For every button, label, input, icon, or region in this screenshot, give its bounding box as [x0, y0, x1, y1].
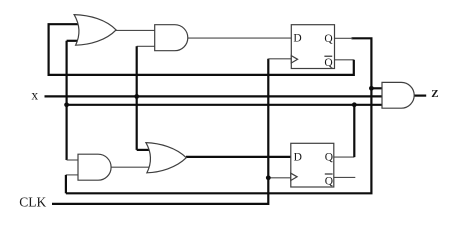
svg-text:Q: Q: [324, 33, 333, 45]
wire FF2 clock stub: [268, 177, 291, 179]
wire x input line: [45, 95, 383, 97]
or-gate OR1: [74, 15, 116, 46]
junction dot x line to AND1 branch: [134, 94, 139, 99]
wire Q2 vertical branch x=66.6 (OR1 lower to AND2 upper): [65, 41, 67, 160]
wire FF2 Q vertical up to Q2 net: [353, 105, 355, 157]
and-gate AND3 (3-input output z): [382, 82, 414, 108]
junction dot CLK riser to FF2 clock: [266, 175, 271, 180]
wire AND2 lower input stub: [66, 174, 80, 176]
and-gate AND1: [155, 25, 188, 51]
wire AND2 upper input stub: [67, 159, 80, 161]
wire OR1 lower input stub: [67, 40, 80, 42]
wire Q1bar feedback (down, left run, up, to OR1 upper): [49, 24, 354, 75]
wire Q1 feedback (FF1 Q right, down, bottom run, to AND2): [66, 38, 372, 193]
wire x vertical branch x=136.7: [136, 46, 138, 150]
or-gate OR2: [146, 143, 186, 173]
junction dot Q2 line FF2 Q riser: [352, 102, 357, 107]
overbar FF1 Qbar: [324, 55, 332, 57]
overbar FF2 Qbar: [325, 173, 333, 175]
junction dot Q2 line left branch: [64, 102, 69, 107]
flip-flop FF1 clock triangle: [291, 56, 297, 63]
svg-text:D: D: [293, 33, 301, 45]
svg-text:Z: Z: [431, 88, 438, 100]
flip-flop FF2 box: [291, 143, 334, 187]
wire OR2 output to FF2 D: [186, 156, 291, 158]
svg-text:x: x: [31, 88, 38, 103]
wire AND1 output to FF1 D: [188, 37, 292, 39]
wire FF2 Qbar unconnected stub: [334, 176, 356, 178]
wire FF1 clock stub: [268, 58, 291, 60]
wire AND1 lower input stub: [137, 45, 155, 47]
wire FF1 Q output stub: [335, 37, 353, 39]
wire AND2 output to OR2 lower input: [111, 166, 151, 168]
flip-flop FF1 box: [291, 25, 334, 69]
junction dot Q1 riser to AND3: [369, 86, 374, 91]
wire Q2 net horizontal to AND3: [67, 104, 383, 106]
wire FF1 Qbar output stub: [335, 59, 354, 61]
flip-flop FF2 clock triangle: [291, 173, 297, 180]
svg-text:D: D: [294, 152, 302, 164]
svg-text:Q: Q: [325, 152, 334, 164]
and-gate AND2: [78, 154, 111, 180]
svg-text:CLK: CLK: [19, 194, 46, 209]
wire OR2 upper input stub: [137, 149, 150, 151]
svg-text:Q: Q: [324, 57, 333, 69]
wire FF2 Q stub: [334, 156, 355, 158]
svg-text:Q: Q: [325, 175, 334, 187]
wire AND3 top input stub from Q1: [371, 87, 383, 89]
wire AND2 lower input vertical to Q1 feedback: [65, 175, 67, 193]
wire CLK line and riser: [52, 59, 268, 204]
wire AND3 output: [414, 94, 426, 96]
wire OR1 output to AND1 input: [116, 29, 155, 31]
